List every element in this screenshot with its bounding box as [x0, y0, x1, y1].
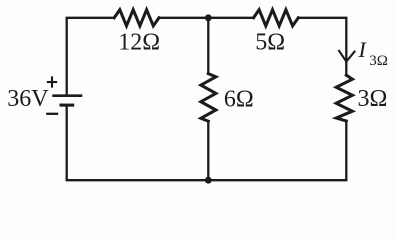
- battery V1 36V positive plate: [52, 94, 82, 97]
- wire right-bottom: 3-ohm to bottom-right corner: [208, 121, 346, 180]
- svg-text:12Ω: 12Ω: [118, 29, 160, 55]
- battery V1 36V negative plate: [60, 104, 75, 107]
- node A junction dot (12/5/6 ohm): [205, 14, 212, 21]
- resistor R 6ohm: [201, 74, 216, 122]
- svg-text:3Ω: 3Ω: [369, 53, 388, 69]
- wire top-left: battery top to 12-ohm resistor: [67, 18, 115, 95]
- wire middle-bottom: 6-ohm to bottom node B: [207, 121, 209, 180]
- wire middle vertical: node A to 6-ohm: [207, 18, 209, 74]
- svg-text:3Ω: 3Ω: [358, 86, 388, 112]
- wire bottom-left: node B to battery bottom: [67, 106, 209, 180]
- wire top-right: 5-ohm to top-right corner down to 3-ohm: [298, 18, 346, 75]
- battery minus sign: [46, 113, 58, 115]
- wire top-middle: 12-ohm to node A: [159, 17, 208, 19]
- svg-text:5Ω: 5Ω: [255, 29, 285, 55]
- battery plus sign: [47, 76, 57, 87]
- current arrow I3 head: [339, 51, 355, 62]
- resistor R 12ohm: [114, 10, 159, 26]
- svg-text:6Ω: 6Ω: [224, 87, 254, 113]
- resistor R 5ohm: [254, 10, 299, 26]
- svg-text:36V: 36V: [7, 86, 49, 112]
- resistor R 3ohm: [336, 75, 352, 121]
- node B junction dot (6 ohm / bottom wire): [205, 177, 212, 184]
- wire top: node A to 5-ohm resistor: [208, 17, 253, 19]
